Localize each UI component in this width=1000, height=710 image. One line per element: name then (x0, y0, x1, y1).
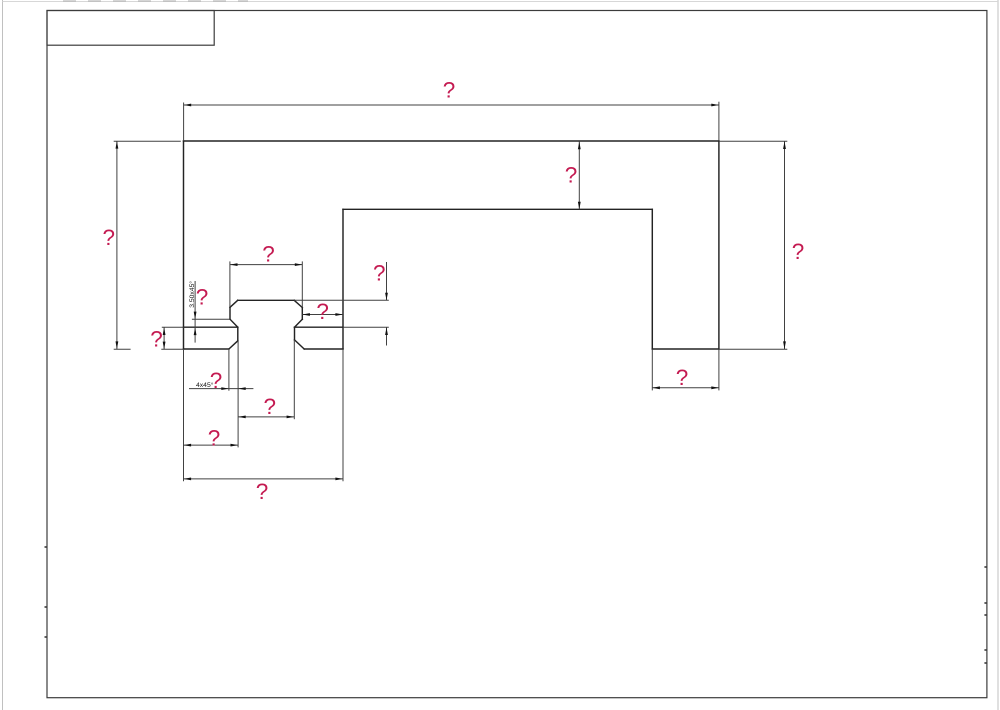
dim10 line (189, 388, 253, 390)
ext dim5 left (229, 261, 231, 307)
ext dim9 bottom (161, 348, 183, 350)
dim11 arrows (238, 416, 246, 419)
dim10 arrows (outside) (221, 387, 229, 390)
svg-text:?: ? (150, 327, 163, 352)
foot inner wall (651, 209, 653, 349)
ext dim2 bottom (114, 348, 131, 350)
ext dim7 (192, 318, 230, 320)
head-neck right chamfer (295, 319, 303, 327)
dim13 line (184, 478, 344, 480)
svg-text:?: ? (263, 394, 276, 419)
dim12 arrows (184, 444, 192, 447)
dim12 line (184, 444, 239, 446)
part right edge (718, 141, 720, 349)
ext dim11 right (293, 340, 295, 419)
ext dim9 top (162, 326, 184, 328)
dim5 arrows (230, 263, 238, 266)
svg-text:?: ? (210, 368, 223, 393)
dim14 arrows (652, 386, 660, 389)
svg-text:?: ? (443, 78, 456, 103)
part left edge (183, 141, 185, 349)
ext dim1 left (183, 103, 185, 142)
neck left wall (237, 327, 239, 341)
beam bottom edge (343, 208, 652, 210)
part top edge (184, 140, 719, 142)
frame fold tick left (45, 547, 48, 637)
ext dim6 bottom (343, 326, 389, 328)
page edge right (997, 0, 999, 710)
dim6 arrows (outside) (385, 293, 388, 301)
ext dim2 top (114, 140, 181, 142)
ext dim12/13 left (183, 349, 185, 481)
dim4 arrows (783, 141, 786, 149)
head left wall (229, 307, 231, 319)
svg-text:?: ? (103, 225, 116, 250)
dim13 arrows (184, 478, 192, 481)
dim8 line (302, 314, 343, 316)
dim8 arrows (302, 313, 310, 316)
svg-text:3.50x45°: 3.50x45° (188, 281, 196, 308)
dim2 line (116, 141, 118, 349)
right top plane (295, 326, 344, 328)
left bottom face (184, 348, 229, 350)
ext dim13 right (342, 349, 344, 481)
svg-text:4x45°: 4x45° (196, 381, 214, 389)
page edge top dashes (3, 1, 999, 3)
head top-left chamfer (230, 300, 238, 307)
right bottom face (304, 348, 343, 350)
dim1 line (184, 104, 719, 106)
svg-text:?: ? (676, 365, 689, 390)
ext dim14 left (651, 349, 653, 390)
svg-text:?: ? (208, 426, 221, 451)
dim6 line lower tail (386, 327, 388, 345)
ext dim10/12 right (237, 341, 239, 448)
left top plane (184, 326, 238, 328)
svg-text:?: ? (373, 261, 386, 286)
neck bottom-left chamfer 4x45 (229, 341, 238, 349)
svg-text:?: ? (262, 242, 275, 267)
svg-text:?: ? (256, 479, 269, 504)
dim9 line (163, 327, 165, 349)
dim3 line (578, 142, 580, 210)
dim14 line (652, 387, 719, 389)
title block (47, 11, 214, 46)
dim6 line upper tail (386, 262, 388, 300)
step wall (342, 209, 344, 349)
page edge left (2, 0, 4, 710)
dim1 arrows (184, 104, 192, 107)
neck right wall (294, 327, 296, 340)
svg-text:?: ? (196, 285, 209, 310)
svg-text:?: ? (792, 239, 805, 264)
ext dim6 top (294, 299, 389, 301)
dim11 line (238, 416, 294, 418)
dim4 line (784, 141, 786, 349)
frame fold tick right (984, 567, 987, 663)
svg-text:?: ? (565, 163, 578, 188)
dim5 line (230, 264, 303, 266)
head right wall (301, 308, 303, 320)
dim3 arrows (578, 142, 581, 150)
dim2 arrows (116, 141, 119, 149)
ext dim4 top (719, 140, 787, 142)
slot head top edge (238, 299, 295, 301)
ext dim10 left (228, 349, 230, 391)
foot bottom edge (652, 348, 719, 350)
dim7 arrows (outside) (194, 312, 197, 320)
ext dim1 right / dim4 top vert (718, 102, 720, 141)
head-neck left chamfer 3.5x45 (230, 319, 238, 327)
ext dim14 right (718, 349, 720, 390)
ext dim5 right (301, 261, 303, 307)
ext dim4 bottom / foot ext (719, 348, 787, 350)
svg-text:?: ? (316, 299, 329, 324)
dim9 arrows (163, 327, 166, 335)
dim7 line (194, 281, 196, 343)
head top-right chamfer (294, 300, 302, 307)
neck bottom-right chamfer (295, 340, 305, 349)
